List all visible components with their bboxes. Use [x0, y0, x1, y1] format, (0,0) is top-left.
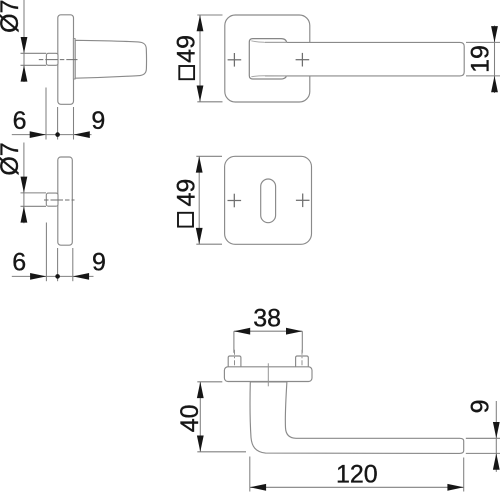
grip lever (view A) [75, 40, 146, 78]
extension line plate bottom (view E 40) [197, 381, 222, 383]
extension line pin bottom (view A) [21, 64, 47, 66]
extension line lever top (view E 9) [466, 437, 500, 439]
centerline dashed (view B) [44, 199, 75, 201]
svg-text:Ø7: Ø7 [0, 0, 24, 33]
key rose side profile (view B) [58, 157, 73, 245]
arrow Ø7 bottom (view B) [21, 206, 28, 222]
screw cross left (view C) [228, 53, 242, 67]
neck collar (view A) [73, 39, 75, 79]
square key rose (view D) [225, 156, 312, 244]
screw cross right (view C) [296, 53, 310, 67]
arrow 6 (view A) [30, 131, 46, 138]
arrow 9 (view B) [73, 273, 89, 280]
svg-text:6: 6 [12, 248, 26, 276]
arrow 6 (view B) [30, 273, 46, 280]
fixing pin (view B) [46, 193, 58, 206]
dimension line 40 (view E) [199, 382, 201, 452]
extension line rose top (view D 49) [196, 155, 222, 157]
dimension line 6/9 (view A) [12, 134, 92, 136]
extension line lever end (view E 120) [463, 458, 465, 492]
arrow 49 bottom (view C) [197, 86, 204, 102]
dimension line Ø7 (view A) [23, 0, 25, 82]
arrow 19 bottom (view C) [491, 76, 498, 92]
dimension line Ø7 (view B) [23, 143, 25, 224]
extension line rose back (view A 6/9) [73, 107, 75, 140]
fixing pin left (view E) [228, 356, 241, 368]
svg-text:120: 120 [336, 461, 378, 489]
pin centerline right (view E) [301, 350, 303, 381]
neck and lever (view E) [250, 382, 464, 454]
extension line pin left (view E 38) [233, 331, 235, 353]
extension line rose front (view B 6/9) [57, 248, 59, 281]
arrow 40 bottom (view E) [197, 436, 204, 452]
dimension line 120 (view E) [250, 486, 464, 488]
square rose (view C) [225, 15, 310, 102]
junction dot (view B) [55, 274, 60, 279]
arrow 9 (view A) [74, 131, 90, 138]
svg-text:6: 6 [13, 107, 27, 135]
svg-text:9: 9 [92, 248, 106, 276]
arrow 38 right (view E) [286, 328, 302, 335]
neck shading top (view C) [251, 41, 287, 43]
extension line rose back (view B 6/9) [72, 248, 74, 281]
rose side profile (view A) [58, 15, 74, 105]
square symbol (view D) [178, 213, 193, 227]
screw cross left (view D) [228, 194, 242, 208]
dimension line 38 (view E) [234, 330, 302, 332]
svg-text:40: 40 [176, 404, 204, 432]
extension line handle left (view E 120) [249, 457, 251, 492]
svg-text:19: 19 [467, 45, 495, 73]
extension line rose bottom (view C 49) [197, 101, 222, 103]
arrow 49 top (view C) [197, 15, 204, 31]
extension line pin end (view A 6/9) [45, 88, 47, 140]
dimension line 49 (view C) [199, 15, 201, 102]
junction dot (view A) [55, 132, 60, 137]
center mark (view E) [267, 363, 269, 386]
fixing pin (view A) [46, 53, 58, 65]
arrow 40 top (view E) [197, 382, 204, 398]
svg-text:9: 9 [467, 399, 495, 413]
neck shading bottom (view C) [251, 76, 287, 77]
dimension line 9 (view E) [495, 401, 497, 472]
dimension line 19 (view C) [494, 26, 496, 94]
rose plate (view E) [224, 367, 312, 382]
arrow 49 bottom (view D) [196, 228, 203, 244]
svg-text:Ø7: Ø7 [0, 142, 24, 175]
handle neck (view C) [249, 39, 287, 79]
svg-text:38: 38 [253, 304, 281, 332]
extension line rose top (view C 49) [197, 14, 222, 16]
pin centerline left (view E) [234, 350, 236, 381]
extension line lever bottom (view C 19) [466, 75, 500, 77]
dimension line 6/9 (view B) [12, 275, 94, 277]
arrow 120 left (view E) [250, 484, 266, 491]
dimension line 49 (view D) [198, 156, 200, 244]
extension line lever top (view C 19) [466, 41, 500, 43]
extension line lever bottom-left (view E 40) [197, 451, 246, 453]
arrow 49 top (view D) [196, 156, 203, 172]
svg-text:49: 49 [172, 35, 200, 63]
extension line pin top (view B) [21, 192, 47, 194]
extension line pin right (view E 38) [301, 331, 303, 353]
keyhole (view D) [261, 179, 276, 223]
extension line pin bottom (view B) [21, 205, 47, 207]
arrow 9 bottom (view E) [493, 453, 500, 469]
arrow Ø7 top (view A) [21, 37, 28, 53]
arrow Ø7 top (view B) [21, 177, 28, 193]
extension line rose front (view A 6/9) [57, 107, 59, 140]
arrow 38 left (view E) [234, 328, 250, 335]
lever bar (view C) [265, 42, 464, 76]
screw cross right (view D) [296, 194, 310, 208]
arrow 120 right (view E) [447, 484, 463, 491]
extension line lever bottom (view E 9) [466, 452, 500, 454]
arrow Ø7 bottom (view A) [21, 65, 28, 81]
extension line rose bottom (view D 49) [196, 243, 222, 245]
extension line pin top (view A) [21, 52, 47, 54]
fixing pin right (view E) [296, 356, 309, 368]
extension line pin end (view B 6/9) [45, 223, 47, 282]
centerline dashed (view A) [39, 59, 78, 61]
square symbol (view C) [179, 66, 194, 79]
svg-text:9: 9 [91, 107, 105, 135]
lever bar outline (view C) [265, 42, 464, 76]
arrow 9 top (view E) [493, 422, 500, 438]
arrow 19 top (view C) [491, 26, 498, 42]
svg-text:49: 49 [172, 179, 200, 207]
